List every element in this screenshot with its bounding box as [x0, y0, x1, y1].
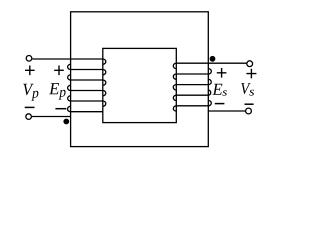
terminal top-right — [247, 61, 253, 67]
minus sign at Ep — [55, 108, 66, 110]
label Vp (V) — [23, 84, 33, 95]
plus sign at Es — [217, 68, 227, 78]
secondary winding L2 turn 5 — [176, 105, 208, 107]
minus sign at Vp — [25, 106, 35, 108]
plus sign at Vs — [246, 69, 256, 79]
plus sign at Vp — [25, 66, 35, 76]
minus sign at Es — [215, 103, 225, 105]
secondary winding right end loops — [208, 69, 211, 106]
primary winding left end loops — [67, 64, 70, 111]
primary winding L1 turn 3 — [71, 79, 103, 81]
label Es (E) — [212, 84, 222, 95]
label Ep (E) — [49, 83, 59, 94]
label Vp (p sub) — [31, 91, 38, 101]
secondary winding L2 turn 4 — [176, 94, 208, 96]
primary winding right end loops — [103, 59, 106, 106]
plus sign at Ep — [54, 66, 64, 76]
polarity dot primary — [63, 119, 69, 125]
label Ep (p sub) — [59, 90, 66, 100]
label Vs (s sub) — [249, 90, 254, 96]
wire bottom-right (winding to terminal) — [208, 110, 245, 112]
secondary winding L2 turn 2 — [176, 73, 208, 75]
terminal bottom-right — [246, 108, 252, 114]
secondary winding left end loops — [173, 63, 176, 111]
primary winding L1 turn 6 — [71, 111, 103, 113]
core inner rectangle (window) — [103, 48, 177, 122]
polarity dot secondary — [210, 56, 216, 62]
label Vs (V) — [241, 83, 251, 94]
label Es (s sub) — [222, 90, 227, 95]
secondary winding L2 turn 3 — [176, 84, 208, 86]
primary winding L1 turn 4 — [71, 90, 103, 92]
minus sign at Vs — [245, 103, 254, 105]
wire top-right (secondary top turn to terminal) — [176, 62, 246, 64]
terminal bottom-left — [26, 114, 32, 120]
wire top-left (terminal to primary top turn) — [32, 58, 103, 60]
terminal top-left — [26, 56, 32, 62]
core outer rectangle — [71, 12, 209, 147]
wire bottom-left (terminal to winding) — [32, 116, 71, 118]
primary winding L1 turn 2 — [71, 69, 103, 71]
primary winding L1 turn 5 — [71, 100, 103, 102]
